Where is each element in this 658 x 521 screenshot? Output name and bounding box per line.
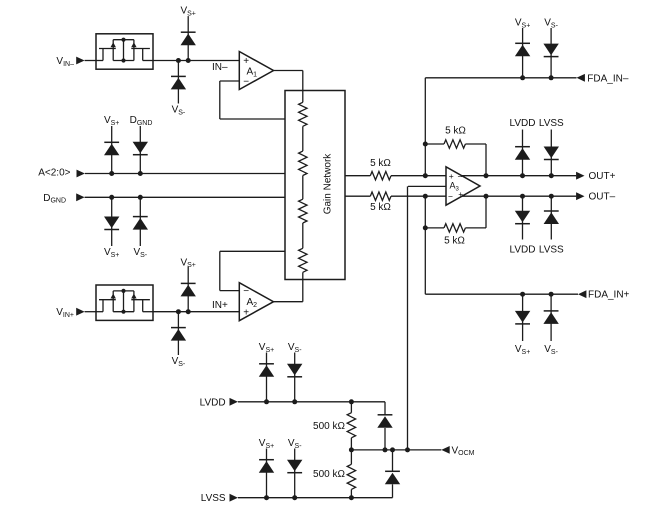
node dot OUT+ / LVSS diode [549,173,554,178]
node dot OUT- / LVSS diode [549,194,554,199]
svg-text:+: + [458,189,463,199]
net label OUT+ [589,171,616,182]
input arrow FDA_IN- [577,74,585,82]
svg-text:5 kΩ: 5 kΩ [444,236,465,247]
op-amp A1 [239,52,273,90]
rail label VS+ (LVDD) [259,342,274,354]
junction dot top feedback tee [423,142,428,147]
ESD diode to VS+ (LVDD) [259,353,274,402]
rail label VS- (VIN+ node) [172,356,186,368]
wire A3 top feedback down to OUT+ rail [485,144,487,176]
ESD diode to VS+ (FDA_IN+) [515,294,530,341]
ESD diode to LVDD (OUT+) [515,130,530,176]
junction dot feedback/OUT- rail [484,194,489,199]
ESD diode from VS- (FDA_IN-) [543,28,558,78]
wire clamp box to A2 + input [153,311,239,313]
svg-text:500 kΩ: 500 kΩ [313,421,345,432]
ESD diode to VS- (VIN+ node) [171,312,186,355]
ESD diode to VS+ (DGND, below) [104,197,119,246]
ESD diode from VS- (FDA_IN+) [543,294,558,341]
value label 5 kOhm (top output) [370,158,391,169]
junction dot feedback/OUT+ rail [484,173,489,178]
wire A3 bottom feedback horizontal [425,227,486,229]
node dot VIN- / VS- diode [176,58,181,63]
ESD diode from LVSS (OUT+) [544,130,559,176]
resistor 500k lower [347,450,355,498]
wire OUT+ rail [462,175,577,177]
wire chain segment 2 [302,176,304,200]
input label LVSS [201,493,226,504]
svg-text:IN–: IN– [212,62,228,73]
input clamp cell (back-to-back transistors) for VIN+ [96,285,153,320]
svg-text:+: + [243,308,249,319]
svg-text:LVSS: LVSS [539,118,564,129]
wire FDA_IN+ vertical [424,228,426,294]
svg-text:LVDD: LVDD [200,397,226,408]
input arrow LVDD [230,398,238,406]
wire A<2:0> to gain network [85,173,285,175]
gain network box [285,91,345,280]
node dot LVDD / 500k resistor [349,399,354,404]
wire VOCM vertical to A3 [407,186,409,450]
net label OUT- [589,192,616,203]
junction dot VOCM / LVDD diode [383,447,388,452]
svg-text:LVDD: LVDD [510,118,536,129]
node dot FDA_IN- / VS- diode [549,75,554,80]
svg-text:−: − [243,77,249,88]
node dot FDA_IN+ / VS- diode [549,292,554,297]
input arrow A<2:0> [77,170,85,178]
input label VIN+ [56,307,74,319]
junction dot VOCM / LVSS diode [390,447,395,452]
node dot OUT- / LVDD diode [520,194,525,199]
rail label VS+ (A<2:0>) [104,115,119,127]
wire A1 output down into gain network [302,71,304,103]
wire A1 feedback to gain network [220,118,285,120]
svg-text:LVSS: LVSS [201,493,226,504]
wire VOCM rail [351,449,441,451]
clamp diode LVSS to VOCM [385,450,400,498]
node dot LVDD / VS- diode [292,399,297,404]
junction dot VOCM / OCM line [405,447,410,452]
node dot LVSS / 500k resistor [349,495,354,500]
rail label VS- (DGND row) [133,247,147,259]
svg-text:A<2:0>: A<2:0> [38,168,70,179]
node dot VIN+ / VS- diode [176,309,181,314]
wire VIN- arrow to clamp box [85,60,96,62]
junction dot bottom input rail [423,194,428,199]
rail label LVSS (OUT+) [539,118,564,129]
input label A<2:0> [38,168,70,179]
ESD diode to VS+ (A<2:0>) [104,126,119,174]
ESD diode to LVDD (OUT-) [515,196,530,239]
rail label VS- (LVDD) [288,342,302,354]
ESD diode from LVSS (OUT-) [544,196,559,239]
wire A1 feedback vertical [219,81,221,119]
junction dot VOCM / resistors [349,447,354,452]
wire LVSS rail [238,497,393,499]
wire gain network to A3 top input [345,175,446,177]
resistor 5k top output [370,172,391,180]
wire A2 feedback to gain network [220,250,285,252]
net label FDA_IN+ [588,290,630,301]
op-amp A2 [239,283,273,321]
wire A1 output [274,70,303,72]
node dot VIN+ / VS+ diode [186,309,191,314]
gain resistor chain R-B [299,151,307,175]
net label IN- [212,62,228,73]
wire A2 inverting input [220,290,240,292]
wire A3 top feedback horizontal [425,143,486,145]
rail label VS- (LVSS) [288,438,302,450]
input arrow LVSS [230,494,238,502]
svg-text:−: − [243,286,249,297]
rail label VS+ (FDA_IN-) [515,18,530,30]
wire OUT- rail [461,195,577,197]
ESD diode from VS- (LVSS) [287,449,302,498]
rail label LVDD (OUT-) [510,245,536,256]
rail label LVDD (OUT+) [510,118,536,129]
wire VOCM into A3 [408,185,446,187]
svg-text:FDA_IN–: FDA_IN– [587,73,629,84]
svg-text:5 kΩ: 5 kΩ [370,202,391,213]
input arrow VIN+ [76,308,84,316]
rail label VS+ (DGND row) [104,247,119,259]
value label 500 kOhm (lower) [313,469,345,480]
node dot A<2:0> / VS+ diode [109,171,114,176]
junction dot bottom feedback tee [423,225,428,230]
net label VOCM [452,445,475,457]
wire A3 bottom feedback vertical [424,196,426,228]
wire LVDD rail [238,401,385,403]
resistor 5k top feedback [444,140,465,148]
svg-text:FDA_IN+: FDA_IN+ [588,290,630,301]
resistor 500k upper [347,402,355,450]
input clamp cell (back-to-back transistors) for VIN- [96,34,153,69]
wire A2 feedback vertical [219,251,221,290]
svg-text:5 kΩ: 5 kΩ [445,125,466,136]
wire VIN+ arrow to clamp box [85,311,96,313]
wire chain segment 3 [302,223,304,248]
wire clamp box to A1 + input [153,60,239,62]
svg-text:500 kΩ: 500 kΩ [313,469,345,480]
rail label VS- (VIN- node) [172,105,186,117]
node dot LVSS / VS+ diode [264,495,269,500]
svg-text:Gain Network: Gain Network [322,153,333,215]
resistor 5k bottom output [370,192,391,200]
output arrow OUT+ [576,172,584,180]
rail label VS+ (VIN+ node) [180,257,195,269]
wire DGND to gain network [85,196,285,198]
net label IN+ [212,300,228,311]
rail label VS+ (LVSS) [259,438,274,450]
wire chain to A2 output [302,272,304,301]
net label FDA_IN- [587,73,629,84]
junction dot top input rail [423,173,428,178]
node dot LVDD / VS+ diode [264,399,269,404]
node dot FDA_IN+ / VS+ diode [520,292,525,297]
input arrow VIN- [76,57,84,65]
rail label VS+ (VIN- node) [180,6,195,18]
rail label VS- (FDA_IN-) [544,18,558,30]
wire A3 top feedback vertical [424,144,426,176]
input label DGND [43,193,66,205]
input arrow FDA_IN+ [578,290,586,298]
wire FDA_IN+ rail [425,293,578,295]
ESD diode to VS+ (VIN- node) [181,16,196,60]
gain resistor chain R-C [299,199,307,223]
value label 5 kOhm (top feedback) [445,125,466,136]
svg-text:LVDD: LVDD [510,245,536,256]
svg-text:LVSS: LVSS [539,245,564,256]
node dot OUT+ / LVDD diode [520,173,525,178]
ESD diode to VS+ (LVSS) [259,449,274,498]
wire gain network to A3 bottom input [345,195,446,197]
value label 5 kOhm (bottom feedback) [444,236,465,247]
ESD diode to VS+ (FDA_IN-) [515,28,530,78]
ESD diode from DGND (A<2:0>) [133,126,148,174]
rail label VS+ (FDA_IN+) [515,344,530,356]
svg-text:−: − [448,192,453,202]
ESD diode from VS- (DGND row) [133,197,148,246]
wire FDA_IN- vertical [424,78,426,145]
node dot DGND / VS+ diode [109,195,114,200]
value label 500 kOhm (upper) [313,421,345,432]
node dot VIN- / VS+ diode [186,58,191,63]
wire A2 output [274,301,303,303]
input label VIN- [56,56,74,68]
value label 5 kOhm (bottom output) [370,202,391,213]
svg-text:OUT–: OUT– [589,192,616,203]
node dot FDA_IN- / VS+ diode [520,75,525,80]
fda A3 [446,167,480,205]
output arrow OUT- [576,192,584,200]
svg-text:IN+: IN+ [212,300,228,311]
gain resistor chain R-D [299,248,307,272]
svg-text:OUT+: OUT+ [589,171,616,182]
wire A1 inverting input [220,80,240,82]
svg-text:5 kΩ: 5 kΩ [370,158,391,169]
wire FDA_IN- rail [425,77,576,79]
resistor 5k bottom feedback [444,224,465,232]
node dot DGND / VS- diode [138,195,143,200]
rail label VS- (FDA_IN+) [544,344,558,356]
node dot A<2:0> / DGND diode [138,171,143,176]
rail label DGND (A<2:0>) [130,115,153,127]
input arrow DGND [76,193,84,201]
ESD diode to VS- (VIN- node) [171,61,186,104]
wire A3 bottom feedback up to OUT- rail [485,196,487,228]
input arrow VOCM [441,446,449,454]
svg-text:−: − [458,172,463,182]
node dot LVSS / VS- diode [292,495,297,500]
rail label LVSS (OUT-) [539,245,564,256]
input label LVDD [200,397,226,408]
ESD diode from VS- (LVDD) [287,353,302,402]
clamp diode LVDD to VOCM [377,402,392,450]
gain resistor chain R-A [299,102,307,126]
wire chain segment 1 [302,126,304,151]
gain network label [322,153,333,215]
ESD diode to VS+ (VIN+ node) [181,267,196,312]
